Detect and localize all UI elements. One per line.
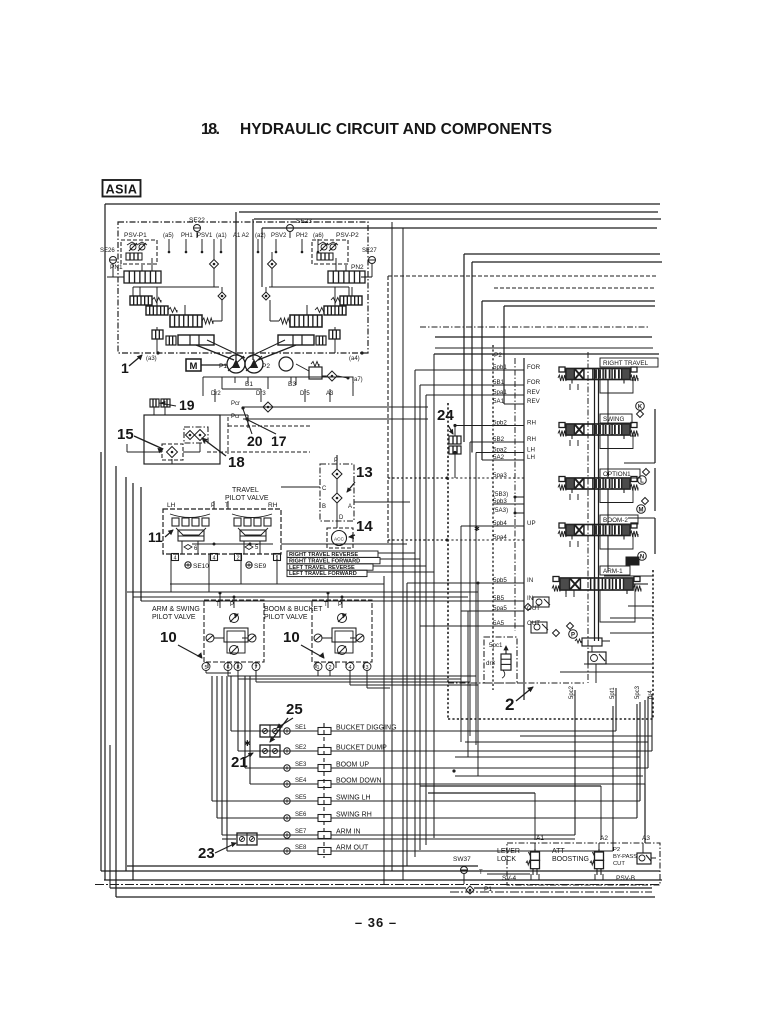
svg-text:4: 4 xyxy=(173,556,176,562)
svg-text:PN1: PN1 xyxy=(110,264,123,271)
svg-text:SE3: SE3 xyxy=(295,762,307,768)
svg-text:B: B xyxy=(322,504,326,510)
svg-text:LH: LH xyxy=(167,502,176,509)
svg-text:✱: ✱ xyxy=(474,525,480,533)
svg-text:1: 1 xyxy=(316,665,319,671)
svg-text:18: 18 xyxy=(228,454,245,471)
svg-text:P: P xyxy=(338,602,342,608)
svg-text:SE5: SE5 xyxy=(295,795,307,801)
svg-text:BOOM UP: BOOM UP xyxy=(336,762,369,769)
svg-text:P2: P2 xyxy=(494,352,502,359)
svg-text:IN: IN xyxy=(527,577,533,584)
svg-text:SE26: SE26 xyxy=(100,248,115,254)
svg-text:SE1: SE1 xyxy=(295,725,307,731)
svg-text:7: 7 xyxy=(254,665,257,671)
svg-text:25: 25 xyxy=(286,701,303,718)
svg-text:1: 1 xyxy=(121,360,129,376)
svg-text:(a3): (a3) xyxy=(146,356,157,362)
svg-text:18.: 18. xyxy=(201,121,220,138)
svg-text:B3: B3 xyxy=(288,381,296,388)
svg-text:LH: LH xyxy=(527,447,535,454)
svg-text:Dr2: Dr2 xyxy=(211,391,221,397)
svg-text:PSV2: PSV2 xyxy=(271,233,287,239)
svg-text:6: 6 xyxy=(226,665,229,671)
svg-text:RH: RH xyxy=(527,420,536,427)
svg-text:P2: P2 xyxy=(613,847,620,853)
svg-text:RIGHT TRAVEL: RIGHT TRAVEL xyxy=(603,360,649,367)
svg-text:RH: RH xyxy=(268,502,278,509)
svg-text:13: 13 xyxy=(356,464,373,481)
svg-text:PH1: PH1 xyxy=(181,233,193,239)
svg-text:20: 20 xyxy=(247,433,263,449)
svg-text:LH: LH xyxy=(527,454,535,461)
svg-text:PSV1: PSV1 xyxy=(197,233,213,239)
svg-text:REV: REV xyxy=(527,398,541,405)
svg-text:(a2): (a2) xyxy=(255,233,266,239)
svg-text:LEFT TRAVEL FORWARD: LEFT TRAVEL FORWARD xyxy=(289,571,357,577)
svg-text:PN2: PN2 xyxy=(351,264,364,271)
svg-text:(a4): (a4) xyxy=(349,356,360,362)
svg-text:SE2: SE2 xyxy=(295,745,307,751)
svg-text:SE22: SE22 xyxy=(189,217,205,224)
svg-text:ATT: ATT xyxy=(552,848,565,855)
svg-text:Pcr: Pcr xyxy=(231,414,240,420)
svg-text:M: M xyxy=(639,507,644,513)
svg-text:2: 2 xyxy=(328,665,331,671)
svg-text:LOCK: LOCK xyxy=(497,856,516,863)
svg-text:BUCKET DUMP: BUCKET DUMP xyxy=(336,745,387,752)
svg-text:A: A xyxy=(348,504,352,510)
svg-text:PILOT VALVE: PILOT VALVE xyxy=(152,614,196,621)
svg-text:(a7): (a7) xyxy=(352,377,363,383)
svg-text:ARM-1: ARM-1 xyxy=(603,568,623,575)
svg-text:SWING RH: SWING RH xyxy=(336,812,372,819)
svg-text:23: 23 xyxy=(198,845,215,862)
svg-text:LEVER: LEVER xyxy=(497,848,520,855)
svg-text:HYDRAULIC CIRCUIT AND COMPONEN: HYDRAULIC CIRCUIT AND COMPONENTS xyxy=(240,121,552,138)
svg-text:C: C xyxy=(322,486,327,492)
svg-text:TRAVEL: TRAVEL xyxy=(232,487,259,494)
svg-text:14: 14 xyxy=(356,518,373,535)
svg-text:L: L xyxy=(640,478,644,484)
svg-text:ARM & SWING: ARM & SWING xyxy=(152,606,200,613)
svg-text:15: 15 xyxy=(117,426,134,443)
svg-text:UP: UP xyxy=(527,520,536,527)
svg-text:5A1: 5A1 xyxy=(493,398,505,405)
svg-text:(5A3): (5A3) xyxy=(493,507,508,514)
svg-text:T: T xyxy=(216,602,220,608)
svg-text:ACC: ACC xyxy=(334,537,345,542)
svg-text:ASIA: ASIA xyxy=(106,183,138,197)
svg-text:– 36 –: – 36 – xyxy=(355,915,397,930)
svg-text:P: P xyxy=(571,632,575,638)
svg-text:P1: P1 xyxy=(219,363,227,370)
svg-text:SE27: SE27 xyxy=(362,248,377,254)
svg-text:(a1): (a1) xyxy=(216,233,227,239)
svg-text:SE8: SE8 xyxy=(295,845,307,851)
svg-text:SWING LH: SWING LH xyxy=(336,795,371,802)
svg-text:OPTION1: OPTION1 xyxy=(603,471,631,478)
svg-text:PILOT VALVE: PILOT VALVE xyxy=(264,614,308,621)
svg-text:BY-PASS: BY-PASS xyxy=(613,854,637,860)
svg-text:SE4: SE4 xyxy=(295,778,307,784)
svg-text:11: 11 xyxy=(148,529,163,545)
svg-text:BOOM & BUCKET: BOOM & BUCKET xyxy=(264,606,323,613)
svg-text:BOOM-2: BOOM-2 xyxy=(603,517,628,524)
svg-text:FOR: FOR xyxy=(527,379,541,386)
svg-text:4: 4 xyxy=(348,665,351,671)
svg-text:Pcr: Pcr xyxy=(231,401,240,407)
svg-text:BOOM DOWN: BOOM DOWN xyxy=(336,778,382,785)
svg-text:5: 5 xyxy=(255,545,259,551)
svg-text:B1: B1 xyxy=(245,381,253,388)
svg-text:BUCKET DIGGING: BUCKET DIGGING xyxy=(336,725,397,732)
svg-text:OUT: OUT xyxy=(527,620,540,627)
svg-text:SE9: SE9 xyxy=(254,563,267,570)
svg-text:D: D xyxy=(339,515,344,521)
svg-text:2: 2 xyxy=(505,695,514,714)
svg-text:T: T xyxy=(324,602,328,608)
svg-text:SE23: SE23 xyxy=(296,218,312,225)
svg-text:SE7: SE7 xyxy=(295,829,307,835)
svg-text:OUT: OUT xyxy=(527,605,540,612)
svg-text:PSV-B: PSV-B xyxy=(616,875,635,882)
svg-text:5: 5 xyxy=(204,665,207,671)
svg-text:ARM OUT: ARM OUT xyxy=(336,845,369,852)
svg-text:FOR: FOR xyxy=(527,364,541,371)
svg-text:SWING: SWING xyxy=(603,416,624,423)
svg-text:PILOT VALVE: PILOT VALVE xyxy=(225,495,269,502)
svg-text:PH2: PH2 xyxy=(296,233,308,239)
svg-text:(5B3): (5B3) xyxy=(493,491,508,498)
svg-text:SW37: SW37 xyxy=(453,856,471,863)
svg-text:SE6: SE6 xyxy=(295,812,307,818)
svg-text:CUT: CUT xyxy=(613,861,625,867)
svg-text:19: 19 xyxy=(179,397,195,413)
svg-text:8: 8 xyxy=(236,665,239,671)
svg-text:K: K xyxy=(638,404,643,410)
svg-text:(a6): (a6) xyxy=(313,233,324,239)
svg-text:A1: A1 xyxy=(536,835,544,842)
svg-text:2: 2 xyxy=(236,556,239,562)
svg-text:4: 4 xyxy=(212,556,215,562)
svg-text:5pt1: 5pt1 xyxy=(610,687,616,699)
svg-text:24: 24 xyxy=(437,407,454,424)
svg-text:IN: IN xyxy=(527,595,533,602)
svg-text:PSV-P1: PSV-P1 xyxy=(124,232,147,239)
svg-text:P: P xyxy=(230,602,234,608)
svg-text:5pc1: 5pc1 xyxy=(489,642,503,649)
svg-text:PSV-P2: PSV-P2 xyxy=(336,232,359,239)
svg-text:6: 6 xyxy=(194,546,198,552)
svg-text:A3: A3 xyxy=(642,835,650,842)
svg-text:REV: REV xyxy=(527,389,541,396)
svg-text:17: 17 xyxy=(271,433,287,449)
svg-text:10: 10 xyxy=(160,629,177,646)
svg-text:5pc2: 5pc2 xyxy=(569,685,575,699)
svg-text:BOOSTING: BOOSTING xyxy=(552,856,589,863)
svg-text:SE10: SE10 xyxy=(193,563,209,570)
svg-text:P2: P2 xyxy=(262,363,270,370)
svg-text:dr3: dr3 xyxy=(486,660,496,667)
svg-text:5pc3: 5pc3 xyxy=(635,685,641,699)
svg-text:(a5): (a5) xyxy=(163,233,174,239)
svg-text:M: M xyxy=(190,361,198,372)
svg-text:SV-4: SV-4 xyxy=(502,875,516,882)
svg-text:ARM IN: ARM IN xyxy=(336,829,361,836)
svg-text:3: 3 xyxy=(365,665,368,671)
svg-text:N: N xyxy=(640,554,644,560)
svg-text:10: 10 xyxy=(283,629,300,646)
svg-text:RH: RH xyxy=(527,436,536,443)
